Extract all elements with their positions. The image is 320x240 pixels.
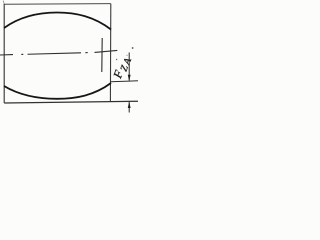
- barrel profile bottom arc: [4, 83, 111, 99]
- vertical centre mark: [101, 38, 103, 72]
- dimension line lower segment: [128, 102, 130, 113]
- speck noise dots: [132, 47, 134, 49]
- corner overshoot smudge: [2, 1, 5, 4]
- background: [0, 0, 138, 125]
- rectangle right edge: [109, 4, 111, 102]
- upper extension line (curve end): [110, 81, 138, 82]
- arrowhead up: [128, 102, 131, 109]
- blank outline rectangle: left edge: [3, 4, 5, 103]
- centerline (dash-dot axis): [0, 50, 117, 55]
- rectangle top edge: [4, 3, 111, 6]
- dimension line upper segment: [128, 53, 130, 81]
- rectangle bottom edge with dimension extension: [4, 101, 138, 103]
- arrowhead down: [128, 75, 131, 82]
- barrel profile top arc: [4, 13, 111, 30]
